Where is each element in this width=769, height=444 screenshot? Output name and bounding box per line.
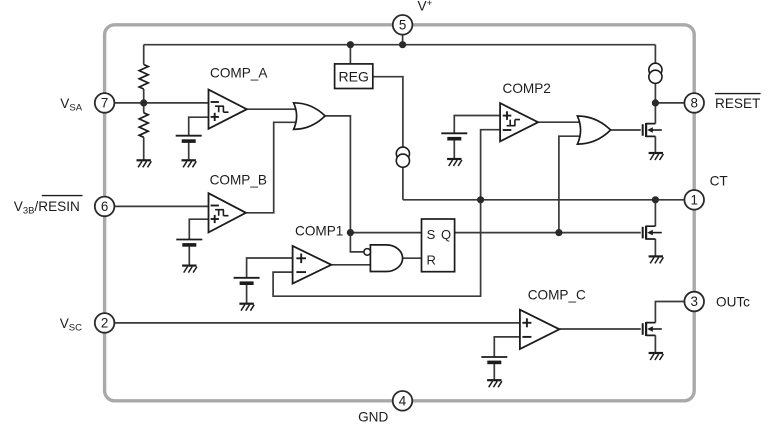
wire COMP2 output to OR2 — [538, 121, 581, 123]
OR gate OR1 — [294, 103, 326, 130]
wire COMP_A output to OR1 — [247, 108, 298, 110]
wire COMP_A plus to Vref1 — [189, 117, 209, 136]
wire pin2 line to COMP_C plus — [114, 322, 520, 324]
wire COMP_C minus to Vref5 — [494, 337, 520, 357]
node CT-M2 junction — [652, 196, 659, 203]
ground below R2 — [137, 160, 152, 167]
svg-text:S: S — [427, 227, 436, 242]
wire pin8 node to pin8 — [655, 102, 684, 104]
wire rail corner to current source I2 — [654, 45, 656, 64]
wire Vref1 to ground — [188, 142, 190, 160]
wire M3 source to ground — [654, 335, 656, 352]
node CT-feedback junction — [477, 196, 484, 203]
svg-text:COMP_A: COMP_A — [210, 65, 268, 80]
reference V1 (COMP_A) — [176, 136, 202, 141]
current source I1 — [396, 147, 409, 167]
pin 5 — [393, 15, 413, 35]
wire COMP2 minus to CT node — [481, 130, 501, 200]
svg-text:COMP_C: COMP_C — [528, 288, 586, 303]
label RESET — [715, 94, 761, 111]
reference V4 (COMP2) — [441, 133, 467, 138]
svg-text:RESET: RESET — [715, 96, 760, 111]
svg-text:CT: CT — [710, 173, 728, 188]
ground below V3 — [239, 304, 254, 311]
svg-text:3: 3 — [690, 294, 697, 309]
svg-text:R: R — [427, 252, 436, 267]
op-amp COMP_C — [520, 310, 560, 349]
op-amp COMP_B — [209, 193, 246, 232]
transistor M2 — [643, 226, 662, 240]
op-amp COMP1 — [293, 246, 332, 284]
wire REG to current source I1 — [373, 77, 403, 148]
current source I2 — [649, 63, 662, 83]
wire COMP1 plus to Vref3 — [247, 258, 293, 278]
svg-text:8: 8 — [690, 96, 697, 111]
wire M1 source to ground — [654, 136, 656, 152]
svg-text:Q: Q — [441, 227, 451, 242]
wire COMP_B output up to OR1 — [246, 122, 298, 213]
wire I1 to CT line — [402, 167, 404, 200]
wire rail to resistor R1 — [143, 45, 145, 65]
OR gate OR2 — [577, 116, 610, 144]
svg-text:2: 2 — [101, 316, 108, 331]
wire M3 drain up to pin3 — [655, 302, 684, 323]
ground below V4 — [447, 159, 462, 166]
wire S input branch — [350, 232, 421, 234]
node pin8 junction — [652, 99, 659, 106]
wire COMP2 plus to Vref4 — [454, 116, 500, 134]
wire M2 source to ground — [654, 239, 656, 256]
node Q-OR2 junction — [555, 229, 562, 236]
block REG — [335, 64, 373, 89]
wire Vref3 to ground — [246, 284, 248, 304]
pin 7 — [95, 93, 115, 113]
node S-branch junction — [347, 229, 354, 236]
wire OR2 output to M1 gate — [611, 129, 641, 131]
ground below M2 — [649, 256, 664, 263]
wire M1 drain up to pin8 node — [654, 103, 656, 124]
wire M2 drain up to CT line — [654, 200, 656, 226]
svg-text:COMP_B: COMP_B — [210, 173, 267, 188]
wire I2 to pin8 node — [654, 83, 656, 103]
node rail-pin5 junction — [399, 41, 406, 48]
reference V2 (COMP_B) — [176, 240, 202, 245]
svg-text:5: 5 — [399, 18, 406, 33]
wire Vref4 to ground — [453, 139, 455, 158]
latch U1 S-R — [422, 219, 455, 272]
reference V3 (COMP1) — [234, 278, 260, 283]
wire COMP1 output to NAND — [331, 264, 370, 266]
resistor R2 — [139, 113, 148, 138]
svg-text:4: 4 — [399, 394, 407, 409]
svg-text:1: 1 — [690, 193, 697, 208]
svg-text:OUTc: OUTc — [716, 295, 750, 310]
wire REG to rail — [349, 45, 351, 64]
pin 1 — [684, 190, 704, 210]
op-amp COMP2 — [500, 103, 538, 141]
AND gate G1 with inverted input — [364, 245, 403, 272]
ground below M3 — [649, 353, 664, 360]
wire pin5 stub — [402, 34, 404, 45]
wire pin6 line — [114, 205, 208, 207]
svg-text:COMP2: COMP2 — [503, 81, 551, 96]
ground below V2 — [182, 266, 197, 273]
ground below V1 — [182, 160, 197, 167]
svg-text:COMP1: COMP1 — [295, 224, 343, 239]
node rail-REG junction — [347, 41, 354, 48]
transistor M3 — [643, 322, 662, 336]
transistor M1 — [643, 123, 662, 137]
svg-text:7: 7 — [101, 96, 108, 111]
wire latch Q to transistor M2 gate — [455, 232, 641, 234]
ground below M1 — [649, 153, 664, 160]
wire OR1 output down to latch S and NAND — [325, 116, 364, 252]
wire R2 to ground — [143, 137, 145, 159]
reference V5 (COMP_C) — [481, 357, 507, 362]
wire top V+ rail — [144, 44, 656, 46]
wire COMP_B plus to Vref2 — [189, 219, 208, 239]
pin 4 — [393, 391, 413, 411]
node A divider tap — [140, 99, 147, 106]
pin 2 — [95, 313, 115, 333]
pin 8 — [684, 93, 704, 113]
wire CT line to pin1 — [403, 199, 685, 201]
op-amp COMP_A — [209, 90, 247, 129]
wire CT node down to feedback and COMP1 minus — [273, 200, 481, 296]
pin 6 — [95, 197, 115, 217]
wire Vref5 to ground — [493, 363, 495, 380]
wire Q branch up to OR2 — [559, 136, 582, 232]
svg-text:6: 6 — [101, 199, 108, 214]
label V3B/RESIN — [14, 196, 83, 217]
pin 3 — [684, 292, 704, 312]
svg-text:GND: GND — [358, 409, 388, 424]
wire R1 to node A — [143, 89, 145, 103]
svg-text:REG: REG — [339, 68, 369, 84]
wire pin7 line — [114, 102, 208, 104]
IC body outline — [105, 25, 695, 401]
wire NAND output to latch R — [403, 257, 422, 259]
wire COMP_C output to M3 gate — [559, 328, 640, 330]
wire Vref2 to ground — [188, 245, 190, 265]
ground below V5 — [487, 380, 502, 387]
resistor R1 — [139, 65, 148, 90]
wire node A to R2 — [143, 103, 145, 113]
